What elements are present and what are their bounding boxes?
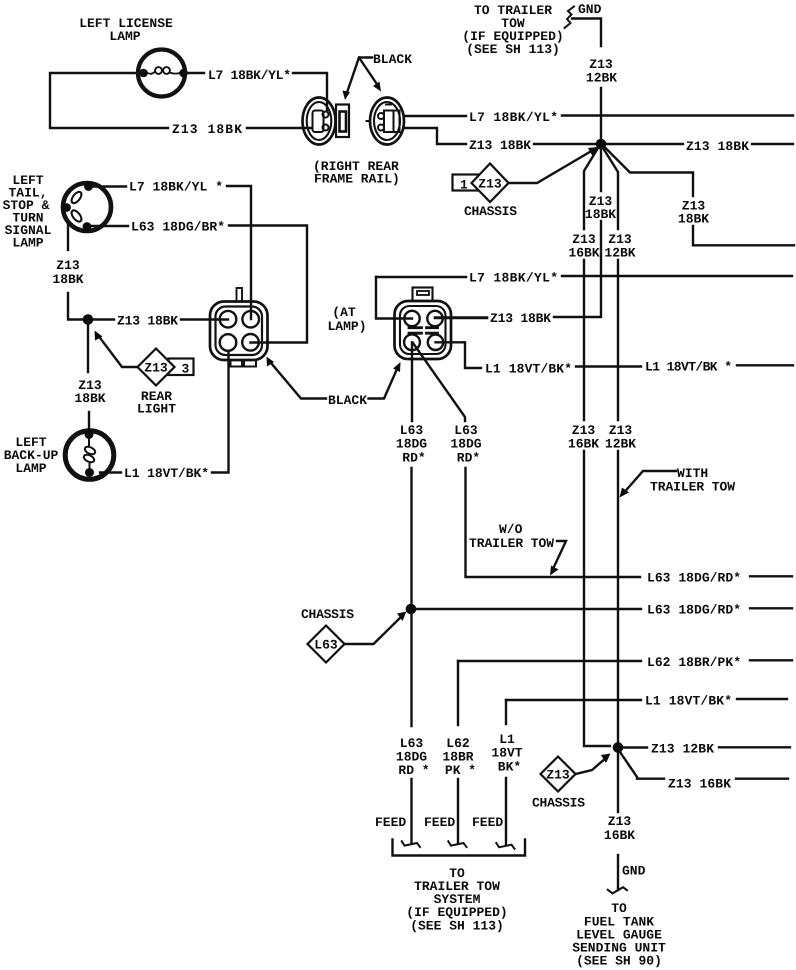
svg-text:Z13 18BK: Z13 18BK [686, 139, 749, 154]
junction node (Z13 lower splice) [613, 742, 624, 753]
svg-text:18DG: 18DG [396, 437, 427, 452]
wire L63 18DG/RD* from splice to right [416, 608, 641, 610]
svg-text:18DG: 18DG [450, 437, 481, 452]
svg-text:LIGHT: LIGHT [137, 402, 176, 417]
svg-text:BLACK: BLACK [373, 52, 412, 67]
label TO TRAILER TOW SYSTEM (IF EQUIPPED)(SEE SH 113) [406, 866, 507, 934]
wire Z13 18BK from connector B to junction [404, 128, 466, 144]
connector D (4-way, rear light) [210, 288, 268, 367]
svg-text:Z13: Z13 [144, 361, 168, 376]
svg-text:RD *: RD * [398, 763, 429, 778]
svg-text:BLACK: BLACK [328, 393, 367, 408]
ground symbol rear light (Z13, cavity 3) [95, 331, 194, 417]
connector C (4-way, at lamp) [395, 288, 452, 360]
svg-text:16BK: 16BK [604, 828, 635, 843]
lamp left tail stop turn signal [62, 182, 111, 231]
GND half connector (bottom) [608, 864, 646, 894]
svg-text:L1 18VT/BK*: L1 18VT/BK* [645, 694, 732, 709]
label: LEFT LICENSE LAMP [79, 16, 173, 44]
svg-text:1: 1 [460, 178, 468, 193]
wire Z13 18BK from tail lamp down [67, 222, 69, 250]
svg-text:(SEE SH 113): (SEE SH 113) [466, 42, 560, 57]
lamp left back-up [65, 430, 114, 479]
wire Z13 12BK (junction fan, down to fuel sender junction) [603, 148, 618, 229]
wire Z13 18BK from splice down to back-up lamp [87, 325, 89, 373]
svg-text:LAMP: LAMP [15, 461, 46, 476]
svg-text:PK *: PK * [445, 763, 476, 778]
svg-text:L7 18BK/YL *: L7 18BK/YL * [129, 180, 223, 195]
svg-text:18BK: 18BK [52, 272, 83, 287]
svg-text:(SEE SH 90): (SEE SH 90) [576, 954, 662, 969]
svg-text:FEED: FEED [375, 815, 406, 830]
svg-text:Z13: Z13 [56, 258, 80, 273]
svg-text:16BK: 16BK [568, 437, 599, 452]
label FEED x3 [375, 815, 503, 830]
svg-text:Z13 18BK: Z13 18BK [172, 122, 242, 137]
svg-text:L63 18DG/BR*: L63 18DG/BR* [131, 220, 225, 235]
lamp L left license lamp [138, 50, 188, 97]
wire Z13 12BK down to junction [600, 88, 602, 139]
svg-text:GND: GND [622, 864, 646, 879]
svg-text:L63 18DG/RD*: L63 18DG/RD* [647, 603, 741, 618]
ground symbol chassis (Z13 lower) [532, 754, 611, 811]
svg-text:12BK: 12BK [605, 437, 636, 452]
wire L1 18VT/BK* (lower row to feed) [506, 699, 641, 701]
wire L1 18VT/BK* from back-up lamp to left connector [100, 471, 121, 473]
svg-text:L7 18BK/YL*: L7 18BK/YL* [469, 110, 558, 125]
svg-text:12BK: 12BK [604, 246, 635, 261]
svg-text:18BK: 18BK [678, 212, 709, 227]
svg-text:TRAILER TOW: TRAILER TOW [650, 480, 735, 495]
svg-text:LAMP): LAMP) [327, 319, 366, 334]
svg-text:16BK: 16BK [568, 246, 599, 261]
svg-text:CHASSIS: CHASSIS [532, 796, 585, 811]
svg-text:18BK: 18BK [585, 207, 616, 222]
wire [752, 143, 793, 145]
svg-text:CHASSIS: CHASSIS [464, 204, 517, 219]
wire Z13 18BK right of junction [606, 143, 683, 145]
GND half connector (top) [565, 2, 602, 46]
svg-text:CHASSIS: CHASSIS [301, 607, 354, 622]
svg-text:Z13: Z13 [478, 177, 502, 192]
connector A (left oval, right rear frame rail) [303, 98, 336, 145]
wire L63 18DG/BR* from tail lamp to left connector [91, 225, 128, 227]
svg-text:L62 18BR/PK*: L62 18BR/PK* [647, 655, 741, 670]
connector seal (black, between connectors) [336, 105, 349, 138]
label LEFT BACK-UP LAMP [4, 435, 59, 476]
label W/O TRAILER TOW with arrow [469, 522, 566, 576]
svg-text:Z13: Z13 [608, 814, 632, 829]
svg-text:FRAME RAIL): FRAME RAIL) [314, 172, 400, 187]
wire L63 18DG/RD* no.1 (at-lamp pin down to splice) [411, 342, 413, 421]
svg-text:L63: L63 [314, 638, 338, 653]
splice node (L63) [406, 604, 417, 615]
svg-text:RD*: RD* [457, 451, 480, 466]
svg-text:L1 18VT/BK*: L1 18VT/BK* [124, 466, 209, 481]
wire Z13 16BK from lower splice to right [620, 752, 637, 777]
ground symbol chassis (L63) [301, 607, 407, 663]
svg-text:W/O: W/O [499, 522, 523, 537]
label TO FUEL TANK LEVEL GAUGE SENDING UNIT (SEE SH 90) [572, 901, 666, 969]
label TO TRAILER TOW (IF EQUIPPED)(SEE SH 113) [462, 3, 563, 57]
svg-text:TRAILER TOW: TRAILER TOW [469, 536, 554, 551]
label WITH TRAILER TOW with arrow [620, 466, 736, 498]
svg-text:RD*: RD* [402, 451, 425, 466]
splice node (Z13 at tail lamp) [83, 314, 94, 325]
svg-text:Z13 18BK: Z13 18BK [490, 311, 551, 326]
svg-text:BK*: BK* [498, 760, 521, 775]
wire Z13 18BK from at-lamp connector pin to vertical [435, 317, 487, 319]
svg-text:3: 3 [182, 362, 190, 377]
wire L7 18BK/YL* from connector B to right edge [404, 115, 466, 117]
label (AT LAMP) [327, 305, 366, 334]
wire L7 18BK/YL * from tail lamp to left connector [92, 185, 126, 187]
wire L7 18BK/YL* (row to at-lamp connector) [376, 276, 466, 278]
wire Z13 18BK (junction fan, jog right) [605, 148, 693, 197]
wire L1 18VT/BK* from at-lamp connector [436, 342, 482, 368]
label BLACK (at lamp) with leader arrows [267, 357, 401, 409]
svg-text:Z13 18BK: Z13 18BK [117, 314, 178, 329]
svg-text:L1 18VT/BK *: L1 18VT/BK * [645, 360, 732, 375]
wire L63 18DG/RD* no.2 (w/o trailer tow branch) [413, 343, 465, 421]
label LEFT TAIL, STOP & TURN SIGNAL LAMP [3, 173, 52, 251]
wire Z13 18BK from license lamp left side down to connector [50, 73, 168, 128]
label BLACK (top) with two leader arrows [343, 52, 413, 100]
svg-text:Z13 12BK: Z13 12BK [651, 742, 714, 757]
svg-text:LAMP: LAMP [12, 236, 43, 251]
svg-text:Z13: Z13 [546, 768, 570, 783]
wire Z13 16BK (junction fan, to lower junction) [584, 148, 598, 229]
wire Z13 18BK (junction fan, straight down to lamp connector) [600, 149, 602, 191]
junction node (Z13 splice at frame rail) [596, 139, 607, 150]
svg-text:L1 18VT/BK*: L1 18VT/BK* [485, 362, 572, 377]
svg-text:L7 18BK/YL*: L7 18BK/YL* [208, 68, 291, 83]
wire Z13 12BK right of lower splice [623, 746, 647, 748]
label Z13 12BK (top, above junction) [586, 57, 617, 86]
wire Z13 18BK from splice to left connector [93, 318, 114, 320]
svg-text:Z13 18BK: Z13 18BK [469, 138, 531, 153]
svg-text:FEED: FEED [424, 815, 455, 830]
svg-text:Z13 16BK: Z13 16BK [668, 777, 731, 792]
wire L62 18BR/PK* [458, 660, 641, 662]
svg-text:L63 18DG/RD*: L63 18DG/RD* [647, 571, 741, 586]
svg-text:GND: GND [578, 2, 602, 17]
svg-text:LAMP: LAMP [109, 29, 140, 44]
svg-text:18BK: 18BK [74, 391, 105, 406]
svg-text:(SEE SH 113): (SEE SH 113) [410, 919, 504, 934]
wire L63 continues below splice to feed [410, 614, 412, 726]
svg-text:12BK: 12BK [586, 71, 617, 86]
svg-text:18VT: 18VT [491, 746, 522, 761]
wire Z13 16BK below splice to fuel sender [617, 753, 619, 812]
label (RIGHT REAR FRAME RAIL) [313, 159, 400, 187]
connector B (right oval, right rear frame rail) [367, 98, 405, 145]
feed half-connector symbols [402, 841, 515, 848]
svg-text:FEED: FEED [472, 815, 503, 830]
wire L7 18BK/YL* from license lamp to connector A [184, 72, 204, 74]
svg-text:L7 18BK/YL*: L7 18BK/YL* [469, 271, 558, 286]
trailer tow bracket [393, 840, 526, 856]
ground symbol G1 chassis (Z13, sheet 1) [453, 147, 598, 219]
svg-text:(AT: (AT [332, 305, 356, 320]
